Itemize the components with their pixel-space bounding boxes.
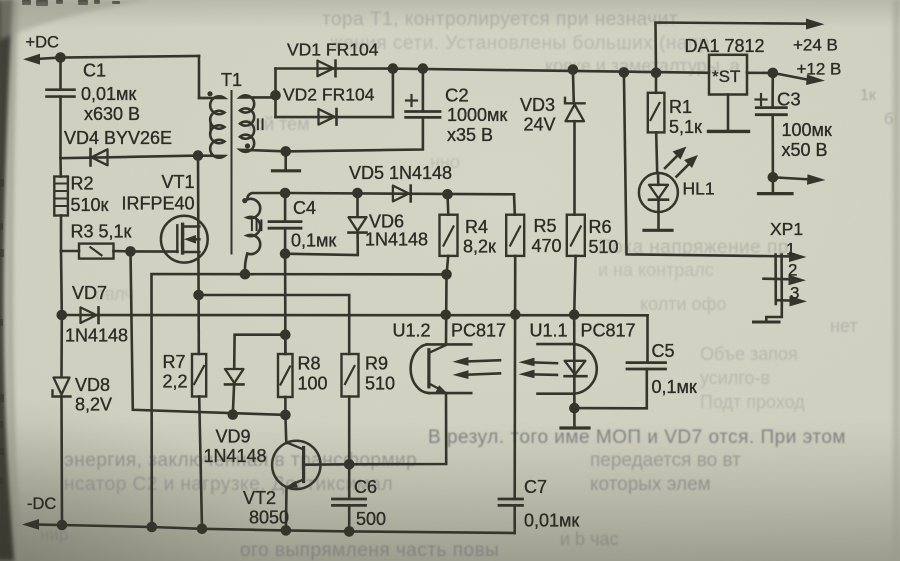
capacitor C1 bbox=[47, 90, 75, 97]
diode VD6 bbox=[285, 193, 366, 255]
junction III return bbox=[147, 522, 158, 533]
diode VD2 bbox=[276, 109, 393, 125]
wire VT1 source to R9 bbox=[199, 295, 350, 354]
junction C6 bottom bbox=[344, 526, 355, 537]
junction VD4/T1-I/VT1 drain bbox=[193, 150, 204, 161]
junction U1.1 cathode/C5 bbox=[569, 403, 580, 414]
ground under U1.1 bbox=[561, 408, 589, 428]
capacitor C4 bbox=[269, 193, 301, 254]
phase dot winding III bbox=[242, 198, 247, 203]
junction rail to XP1-1 bbox=[619, 67, 630, 78]
junction +DC/C1 bbox=[55, 52, 66, 63]
ground under HL1 bbox=[644, 212, 672, 230]
wire feedback line (VD7 net) bbox=[62, 314, 648, 317]
node -DC output arrow bbox=[22, 519, 62, 530]
LED HL1 bbox=[639, 147, 698, 213]
light arrows U1 bbox=[453, 357, 501, 366]
diode VD7 bbox=[81, 307, 99, 323]
right edge shading bbox=[893, 0, 900, 561]
wire 0V output arrow bbox=[773, 174, 826, 185]
phase dot winding II bbox=[245, 143, 250, 148]
resistor R9 bbox=[342, 354, 359, 464]
transformer T1 winding II bbox=[240, 95, 286, 152]
wire U1.2 emitter to VT2 base node bbox=[349, 393, 446, 464]
node +DC input arrow bbox=[23, 54, 61, 65]
junction VD7 anode bbox=[57, 310, 68, 321]
junction U1.2 collector bbox=[441, 310, 452, 321]
transformer T1 core bbox=[231, 91, 233, 254]
bleed-through text from reverse page bbox=[95, 9, 893, 412]
junction VD1/VD2 cathode bbox=[388, 63, 399, 74]
wire VD5 feed line bbox=[285, 193, 514, 194]
wire VD4 line bbox=[61, 156, 199, 159]
wire VD2 riser to VD1 cathode node bbox=[392, 69, 395, 118]
wire R3 branch bbox=[61, 250, 178, 253]
resistor R1 bbox=[648, 73, 665, 173]
ground under winding II bbox=[273, 151, 300, 170]
phase dot winding I bbox=[207, 91, 212, 96]
transistor VT1 (MOSFET) bbox=[161, 216, 208, 263]
capacitor C2 bbox=[286, 69, 440, 152]
wire left rail top section bbox=[59, 58, 62, 90]
resistor R8 bbox=[278, 335, 293, 415]
wire left rail C1 to VD4 bbox=[59, 97, 62, 159]
junction VD9 bottom bbox=[228, 409, 239, 420]
diode VD1 bbox=[276, 61, 393, 77]
capacitor C7 bbox=[499, 499, 523, 533]
diode VD4 bbox=[91, 149, 108, 166]
wire main +24V rail bbox=[393, 69, 709, 73]
junction VT2 base/R9/C6 bbox=[344, 459, 355, 470]
resistor R2 bbox=[54, 177, 68, 216]
resistor R4 bbox=[440, 194, 458, 274]
wire left rail R3 node to VD7 node bbox=[60, 251, 63, 315]
ground under DA1 bbox=[709, 95, 749, 132]
junction VT1 source bbox=[193, 290, 204, 301]
capacitor C5 bbox=[574, 315, 665, 408]
junction VD6 top bbox=[352, 188, 363, 199]
junction C2 plus bbox=[418, 63, 429, 74]
junction R1/+24V bbox=[651, 68, 662, 79]
junction T1-II/C2/ground bbox=[280, 146, 291, 157]
wire left rail to R2 bbox=[59, 158, 62, 176]
resistor R3 bbox=[79, 244, 114, 259]
optocoupler U1.2 phototransistor bbox=[411, 344, 472, 393]
junction VT2 emitter bbox=[281, 525, 292, 536]
top-left corner shading bbox=[0, 0, 150, 40]
junction T1-III bottom bbox=[240, 269, 251, 280]
diode VD9 bbox=[225, 335, 285, 415]
junction C4 bottom/R8 bbox=[280, 248, 291, 259]
dark cropped text fragments at top edge bbox=[22, 0, 120, 6]
connector XP1 bbox=[764, 252, 808, 307]
junction -DC bbox=[57, 520, 68, 531]
capacitor C6 bbox=[333, 464, 366, 531]
wire R4 to U1.2 collector bbox=[445, 274, 448, 344]
wire winding III return line bbox=[152, 274, 447, 527]
wire VT1 source to R7 bbox=[197, 295, 200, 354]
junction R4 top bbox=[442, 189, 453, 200]
transistor VT2 bbox=[272, 415, 349, 531]
junction R8/VT2 collector bbox=[280, 410, 291, 421]
junction VD3 top bbox=[568, 64, 579, 75]
wire riser to T1 primary bbox=[199, 56, 207, 98]
cropped letters left margin bbox=[0, 179, 4, 484]
ground under C3 bbox=[759, 177, 793, 193]
wire bottom common rail bbox=[62, 525, 515, 533]
optocoupler U1.1 LED bbox=[538, 315, 597, 408]
wire +24V output branch bbox=[656, 19, 825, 73]
wire left rail VD7 node to VD8 bbox=[60, 315, 63, 377]
ground under XP1 bbox=[754, 304, 782, 322]
junction R4 bottom bbox=[441, 269, 452, 280]
diode VD5 bbox=[393, 186, 411, 202]
wire R7 to bottom rail bbox=[199, 397, 202, 529]
junction R7 bottom bbox=[197, 524, 208, 535]
junction C3 minus/0V bbox=[768, 172, 779, 183]
wire left rail R2 to R3 node bbox=[60, 216, 63, 252]
wire R3 node branch down bbox=[131, 251, 286, 415]
resistor R7 bbox=[192, 354, 206, 397]
wire +24V rail to XP1 pin1 bbox=[624, 72, 793, 256]
junction R3/gate bbox=[125, 246, 136, 257]
junction R6/U1.1 anode bbox=[569, 309, 580, 320]
wire DA1 output to +12V bbox=[747, 73, 825, 85]
transformer T1 winding I bbox=[198, 96, 225, 157]
junction DA1 out/C3 bbox=[768, 68, 779, 79]
wire VT1 drain-source through line bbox=[197, 156, 200, 295]
zener diode VD8 bbox=[53, 378, 71, 397]
voltage regulator DA1 bbox=[709, 55, 747, 95]
zener diode VD3 bbox=[565, 70, 585, 215]
transformer T1 winding III bbox=[245, 193, 285, 274]
wire left rail VD8 to -DC node bbox=[60, 397, 63, 526]
wire R5 through C7 bbox=[513, 256, 516, 499]
junction VD9/R8 top bbox=[280, 329, 291, 340]
wire winding II top to VD1/VD2 bbox=[274, 69, 277, 118]
junction C4 top bbox=[280, 188, 291, 199]
wire top-left rail bbox=[61, 56, 200, 58]
wire C4 bottom to R8 bbox=[284, 254, 287, 354]
left page-curl shadow band bbox=[0, 0, 15, 561]
capacitor C3 bbox=[756, 73, 787, 177]
resistor R5 bbox=[506, 194, 524, 256]
junction R5 bottom bbox=[510, 309, 521, 320]
junction T1-II top bbox=[270, 90, 281, 101]
resistor R6 bbox=[567, 215, 585, 315]
